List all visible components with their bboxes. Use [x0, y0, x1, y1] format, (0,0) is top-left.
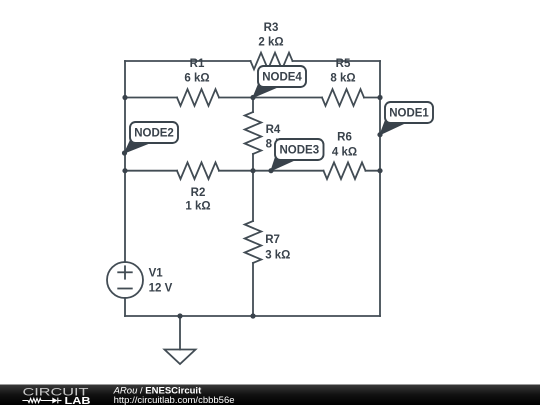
wire third rail right: [366, 170, 381, 172]
wire center column to bottom: [252, 263, 254, 316]
node junction center-second: [250, 95, 255, 100]
wire top rail right segment: [293, 60, 381, 62]
wire second rail right: [364, 97, 380, 99]
node NODE1 anchor: [377, 132, 382, 137]
wire second rail middle: [219, 97, 322, 99]
svg-text:6 kΩ: 6 kΩ: [184, 73, 209, 85]
wire ground stem: [179, 316, 181, 350]
node junction center-bottom: [250, 313, 255, 318]
svg-text:1 kΩ: 1 kΩ: [185, 201, 210, 213]
svg-text:NODE3: NODE3: [279, 145, 319, 157]
svg-text:R7: R7: [265, 234, 280, 246]
footer bar: [0, 385, 540, 405]
svg-text:R4: R4: [266, 124, 281, 136]
svg-text:R2: R2: [191, 187, 206, 199]
wire third rail middle: [219, 170, 324, 172]
node NODE2 callout: [125, 122, 179, 153]
footer logo squiggle: [22, 398, 61, 404]
svg-text:8 kΩ: 8 kΩ: [330, 73, 355, 85]
resistor R5: [322, 89, 364, 106]
node NODE1 callout: [380, 102, 433, 135]
svg-text:12 V: 12 V: [149, 283, 173, 295]
voltage source V1: [107, 262, 143, 298]
svg-text:R1: R1: [190, 58, 205, 70]
resistor R3: [251, 53, 293, 70]
svg-text:4 kΩ: 4 kΩ: [332, 147, 357, 159]
svg-text:R5: R5: [336, 58, 351, 70]
resistor R2: [177, 162, 219, 179]
svg-text:NODE2: NODE2: [134, 128, 174, 140]
wire V1 bottom: [124, 298, 126, 316]
node NODE2 anchor: [122, 150, 127, 155]
wire top rail left segment: [125, 60, 251, 62]
svg-text:NODE4: NODE4: [262, 72, 302, 84]
node junction right-third: [377, 168, 382, 173]
node junction dots: [122, 95, 383, 319]
resistor R7: [245, 221, 262, 263]
node NODE3 callout: [271, 139, 324, 171]
svg-text:R3: R3: [264, 22, 279, 34]
footer logo diode: [52, 398, 57, 404]
node NODE3 anchor: [268, 168, 273, 173]
svg-text:R6: R6: [337, 131, 352, 143]
svg-text:2 kΩ: 2 kΩ: [258, 37, 283, 49]
node junction left-second: [122, 95, 127, 100]
node junction center-third: [250, 168, 255, 173]
resistor R6: [324, 162, 366, 179]
wire second rail left: [125, 97, 177, 99]
wire bottom rail: [125, 315, 380, 317]
svg-text:http://circuitlab.com/cbbb56e: http://circuitlab.com/cbbb56e: [114, 395, 235, 405]
svg-text:NODE1: NODE1: [389, 108, 429, 120]
resistor R1: [177, 89, 219, 106]
node junction right-second: [377, 95, 382, 100]
resistor R4: [245, 112, 262, 154]
svg-text:V1: V1: [149, 268, 164, 280]
svg-text:LAB: LAB: [65, 395, 91, 405]
wire right rail: [379, 61, 381, 316]
wire center column lower: [252, 154, 254, 221]
wire third rail left: [125, 170, 177, 172]
wire left rail upper: [124, 61, 126, 262]
ground: [165, 350, 196, 365]
svg-text:3 kΩ: 3 kΩ: [265, 249, 290, 261]
node junction left-third: [122, 168, 127, 173]
wire center column upper: [252, 98, 254, 113]
node NODE4 callout: [253, 66, 306, 98]
node junction ground-bottom: [177, 313, 182, 318]
